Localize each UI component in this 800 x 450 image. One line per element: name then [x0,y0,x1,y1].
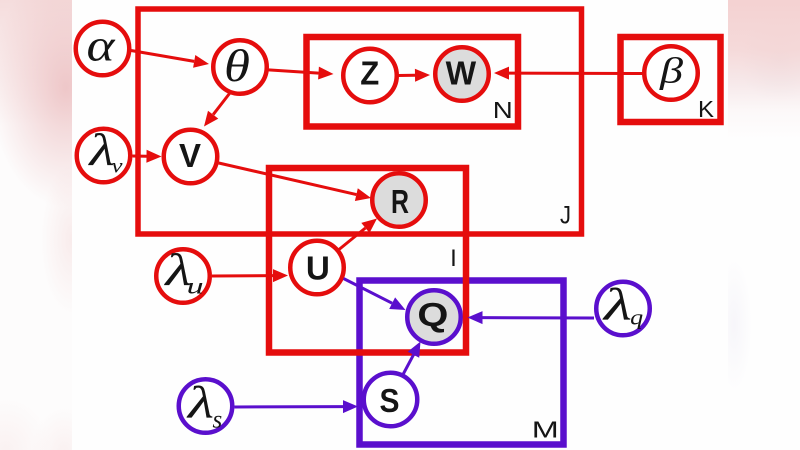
plate J [138,9,582,234]
svg-text:λ: λ [601,280,632,330]
svg-text:S: S [380,382,400,419]
svg-text:α: α [87,21,117,71]
wire Z->W [399,74,416,77]
svg-text:s: s [213,407,223,434]
svg-text:K: K [698,96,715,122]
right blurred letterbox strip [728,0,800,450]
svg-text:Z: Z [360,55,379,92]
svg-text:λ: λ [185,378,214,428]
node lambda_s [179,379,233,433]
wire lambda_q->Q purple [483,316,595,319]
wire alpha->theta [131,51,194,62]
svg-text:λ: λ [87,125,115,175]
svg-text:β: β [659,51,683,91]
wire S->Q purple [403,355,414,375]
svg-text:J: J [560,202,571,230]
node Q shaded [407,290,461,344]
wire beta->W [509,72,643,75]
plate K [621,37,721,122]
node R shaded [372,173,426,227]
svg-text:U: U [306,250,330,287]
svg-text:u: u [187,274,204,299]
wire U->Q purple [344,279,393,304]
svg-text:N: N [493,97,513,123]
plate M [360,281,564,445]
svg-text:R: R [391,183,409,220]
node alpha [76,22,130,76]
wire lambda_u->U [212,274,273,277]
svg-text:q: q [630,305,643,330]
wire V->R [219,163,357,195]
svg-text:W: W [446,55,477,92]
wire lambda_v->V [133,155,147,158]
wire theta->V [213,94,229,115]
left blurred letterbox strip [0,0,72,450]
svg-text:M: M [532,417,559,443]
svg-text:V: V [179,137,201,174]
wire U->R [339,228,365,250]
node W shaded [435,47,489,101]
node V [164,130,218,184]
node U [290,241,344,295]
wire lambda_s->S purple [235,405,344,408]
svg-text:Q: Q [417,296,448,333]
node theta [213,40,267,94]
node S [364,373,418,427]
svg-text:I: I [450,245,457,272]
svg-text:v: v [112,156,123,178]
node Z [343,49,397,103]
svg-text:θ: θ [224,40,250,91]
plate I (drawn over Q) [269,168,466,353]
node beta [644,46,698,100]
node lambda_v [77,129,131,183]
node lambda_q [596,282,650,336]
wire theta->Z [267,70,319,73]
node lambda_u [156,249,210,303]
plate N [307,37,519,127]
